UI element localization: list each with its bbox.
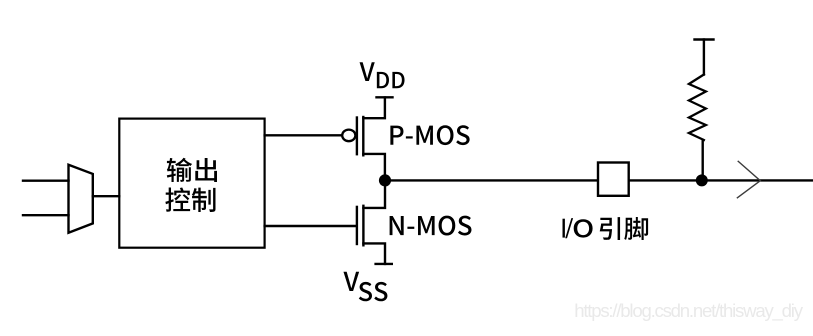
junction node at push-pull output	[379, 174, 391, 186]
label I/O : I	[562, 219, 564, 238]
label I/O : O	[574, 219, 593, 237]
signal direction arrow	[737, 161, 761, 198]
VSS rail bar	[376, 263, 392, 265]
label VSS : SS subscript	[359, 282, 372, 301]
label 引脚	[600, 217, 620, 240]
I/O pad square	[598, 163, 629, 196]
transistor Q2 N-MOS gate plate	[356, 207, 358, 244]
label VSS : V	[343, 272, 359, 291]
P-MOS gate bubble	[342, 130, 355, 142]
input wire 1	[23, 179, 69, 181]
transistor Q1 P-MOS channel	[362, 117, 364, 155]
output control box	[119, 119, 264, 248]
transistor Q2 N-MOS channel	[362, 206, 364, 246]
label 控制 (line 2 of control box)	[165, 188, 190, 212]
wire rail to resistor	[703, 40, 705, 75]
label P-MOS	[390, 126, 403, 145]
svg-text:https://blog.csdn.net/thisway_: https://blog.csdn.net/thisway_diy	[574, 300, 804, 322]
wire buffer to control box	[93, 195, 120, 197]
Q1 drain lead to output node	[363, 154, 385, 181]
Q1 source lead to VDD	[363, 97, 385, 118]
VDD rail bar	[377, 96, 393, 98]
Q2 source lead to VSS	[363, 243, 385, 264]
input buffer U1 (trapezoid)	[69, 165, 93, 233]
wire box to N-MOS gate	[265, 225, 356, 227]
wire I/O pad to pin node and right edge	[629, 179, 812, 181]
label N-MOS	[390, 216, 404, 235]
wire output node to I/O pad	[385, 179, 598, 181]
junction node at pin	[696, 174, 708, 186]
input wire 2	[23, 214, 69, 216]
label 输出 (line 1 of control box)	[167, 158, 192, 182]
label VDD : V	[360, 62, 375, 81]
wire resistor to pin node	[702, 140, 704, 180]
resistor R1 (pull-up)	[689, 75, 706, 141]
label VDD : DD subscript	[377, 72, 389, 88]
Q2 drain lead to output node	[363, 180, 385, 208]
pull-up rail bar	[695, 38, 714, 40]
wire box to P-MOS gate	[265, 134, 343, 136]
transistor Q1 P-MOS gate plate	[356, 118, 358, 155]
label I/O : slash	[565, 218, 573, 238]
